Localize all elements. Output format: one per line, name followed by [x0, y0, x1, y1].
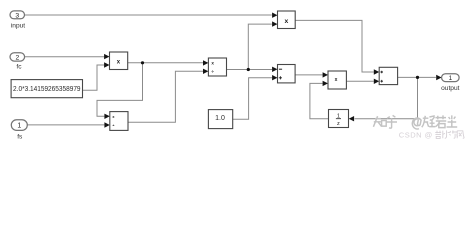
arrowhead top product in1	[272, 13, 277, 18]
inport 2 oval (fc)	[10, 53, 25, 61]
svg-text:2: 2	[16, 54, 20, 61]
inport 3 oval (input)	[10, 11, 25, 19]
add block port mark 2	[380, 80, 383, 83]
wire feedback from output junction down to unit delay	[355, 77, 418, 118]
char luo	[435, 131, 441, 139]
svg-text:z: z	[337, 121, 340, 127]
wire subtract out to product2 in1	[295, 74, 322, 76]
char ruo	[435, 115, 446, 127]
subtract minus sign	[279, 68, 282, 70]
arrowhead subtract in1	[272, 67, 277, 72]
svg-text:1: 1	[17, 123, 21, 130]
svg-text:1.0: 1.0	[215, 115, 225, 122]
svg-text:fc: fc	[16, 64, 22, 71]
wire product2 out to add in2	[346, 80, 373, 82]
wire product1 out to divide in1	[128, 62, 203, 64]
unit delay block 1/z	[329, 110, 349, 128]
svg-text:1: 1	[449, 75, 453, 82]
junction node C (output branch to feedback)	[416, 76, 419, 79]
svg-text:3: 3	[15, 12, 19, 19]
char qing	[422, 116, 436, 127]
add block port mark 1	[380, 71, 383, 74]
wire unit delay out to product2 in2	[310, 83, 329, 118]
constant block 1.0	[208, 110, 232, 129]
wire constant 1.0 to subtract in2	[233, 78, 272, 120]
divide block D2 (lower x ÷)	[110, 112, 128, 131]
arrowhead divide in1	[203, 60, 208, 65]
arrowhead add in1	[374, 69, 379, 74]
char at	[412, 118, 421, 129]
arrowhead divide in2	[203, 69, 208, 74]
junction node A (product1 output branch)	[141, 61, 144, 64]
wire branch junction to lower divide in1	[97, 63, 143, 117]
arrowhead lower divide in2	[104, 122, 109, 127]
arrowhead product1 in2	[104, 62, 109, 67]
junction node B (divide output branch)	[247, 68, 250, 71]
svg-text:input: input	[11, 22, 25, 29]
arrowhead subtract in2	[272, 75, 277, 80]
wire add out to output port	[398, 76, 436, 78]
svg-text:fs: fs	[17, 134, 23, 141]
subtract plus sign	[279, 76, 282, 79]
arrowhead lower divide in1	[104, 114, 109, 119]
arrowhead add in2	[374, 79, 379, 84]
svg-text:CSDN @: CSDN @	[399, 131, 433, 140]
wire input(3) to top product in1	[25, 14, 272, 16]
svg-text:2.0*3.14159265358979: 2.0*3.14159265358979	[13, 86, 81, 93]
svg-text:x: x	[285, 18, 289, 25]
product block P1 (2pi*fc)	[110, 52, 128, 70]
char jing	[450, 130, 458, 138]
char zhi	[373, 116, 386, 127]
wire branch divide-out up to top product in2	[248, 24, 271, 69]
unit delay 1/z fraction	[337, 114, 340, 127]
char hu	[386, 115, 397, 128]
char feng	[457, 131, 464, 138]
svg-text:output: output	[441, 85, 460, 92]
watermark zhihu @qingruochen	[373, 115, 457, 129]
outport 1 oval (output)	[442, 74, 460, 82]
arrowhead output port	[436, 75, 441, 80]
wire lower divide out to divide in2	[128, 71, 203, 122]
inport 1 oval (fs)	[11, 120, 27, 131]
arrowhead unit delay input (pointing left)	[349, 116, 354, 121]
wire fc to product1 in1	[25, 56, 105, 58]
product block P3 (x)	[328, 71, 346, 89]
arrowhead product1 in1	[104, 54, 109, 59]
constant block 2.0*3.14159265358979	[11, 80, 82, 98]
arrowhead product2 in1	[323, 72, 328, 77]
wire top product out to add in1	[295, 20, 374, 72]
subtract block S1 (- +)	[278, 65, 296, 83]
arrowhead top product in2	[272, 21, 277, 26]
char ye	[443, 130, 450, 138]
wire divide out to subtract in1	[227, 69, 273, 71]
arrowhead product2 in2	[323, 81, 328, 86]
add block A1 (+ +)	[379, 67, 397, 84]
svg-text:x: x	[335, 77, 338, 83]
divide block D1 (middle x ÷)	[208, 58, 226, 76]
wire constant 2pi to product1 in2	[83, 65, 105, 90]
svg-text:÷: ÷	[112, 124, 114, 128]
wire fs to lower divide in2	[27, 124, 104, 126]
product block P2 (top, x)	[278, 11, 296, 29]
svg-text:x: x	[211, 61, 214, 66]
char chen	[447, 115, 458, 127]
